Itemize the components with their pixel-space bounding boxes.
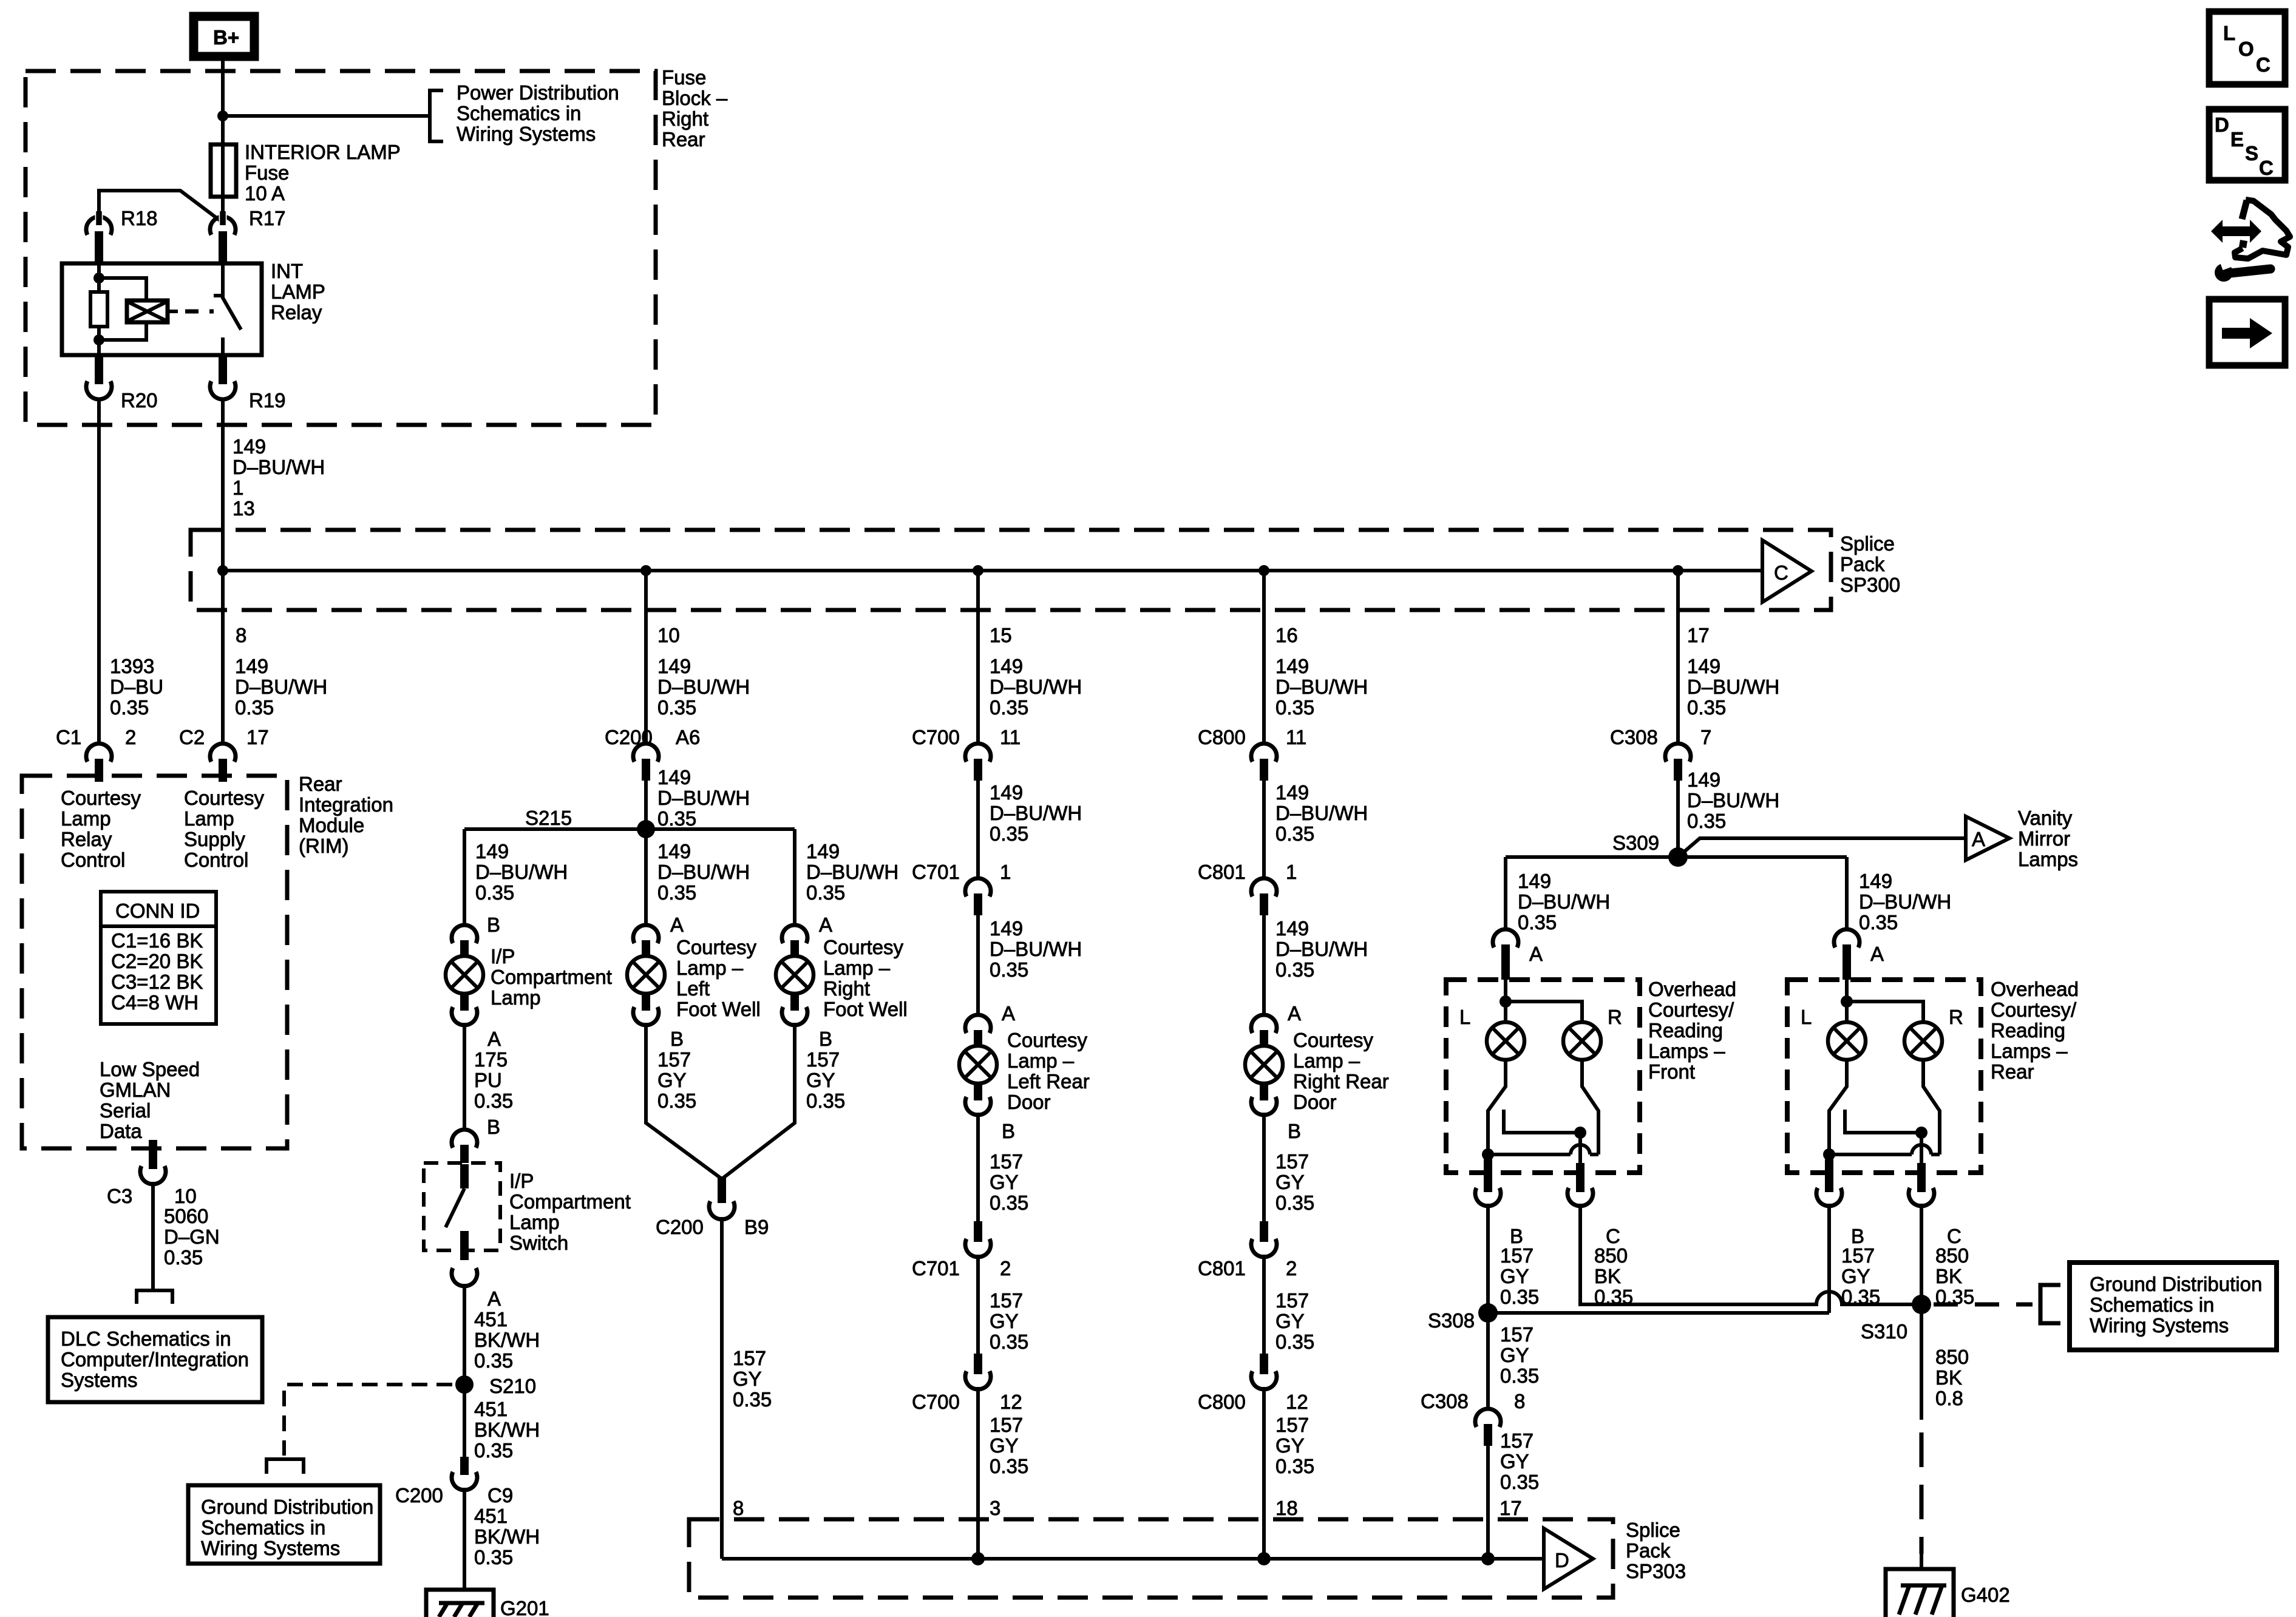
- label connector C700 pin 11: [912, 726, 1021, 748]
- label connector C1 pin 2: [56, 726, 136, 748]
- node bus tap C308: [1673, 565, 1683, 576]
- connector pin R19: [210, 355, 236, 399]
- connector pin A overhead rear: [1834, 929, 1860, 980]
- svg-text:0.35: 0.35: [474, 1439, 513, 1462]
- wire I/P lamp to switch (175 PU): [463, 1023, 466, 1131]
- svg-text:BK/WH: BK/WH: [474, 1419, 540, 1441]
- svg-text:R19: R19: [249, 389, 286, 412]
- svg-text:149: 149: [657, 655, 691, 677]
- svg-text:Supply: Supply: [184, 828, 245, 850]
- wire to relay coil: [99, 278, 146, 300]
- box Ground Distribution Schematics (right): [2070, 1263, 2277, 1350]
- svg-text:C308: C308: [1610, 726, 1658, 748]
- svg-text:E: E: [2230, 128, 2244, 151]
- label circuit 149 D-BU/WH 0.35 (above S215): [657, 766, 750, 830]
- svg-text:Door: Door: [1293, 1091, 1337, 1113]
- wire C801 1 to door lamp: [1262, 915, 1266, 1016]
- svg-text:Front: Front: [1648, 1060, 1695, 1083]
- svg-text:C800: C800: [1198, 726, 1246, 748]
- svg-text:16: 16: [1275, 624, 1298, 646]
- svg-text:D–BU/WH: D–BU/WH: [657, 861, 750, 883]
- connector pin A overhead front: [1493, 929, 1518, 980]
- svg-text:7: 7: [1700, 726, 1711, 748]
- fork to ground distribution box: [267, 1459, 304, 1474]
- wire switch to S210 (451 BK/WH): [463, 1284, 466, 1457]
- svg-text:L: L: [2223, 22, 2235, 44]
- label circuit 149 D-BU/WH 0.35 (C2 leg): [235, 655, 327, 719]
- label circuit 149 D-BU/WH 0.35 (I/P lamp leg): [475, 840, 568, 936]
- svg-text:11: 11: [1286, 726, 1306, 748]
- label circuit 149 D-BU/WH 0.35 (right foot well leg): [806, 840, 898, 936]
- label connector C701 pin 1: [912, 861, 1011, 883]
- lamp overhead front right: [1563, 1022, 1601, 1060]
- svg-text:B: B: [1288, 1120, 1301, 1142]
- svg-text:C200: C200: [395, 1484, 443, 1507]
- svg-text:C: C: [1774, 561, 1788, 584]
- svg-text:Module: Module: [299, 814, 364, 836]
- node lamp feed split: [1500, 995, 1512, 1008]
- label circuit 149 D-BU/WH 0.35 (C700 leg): [990, 655, 1082, 719]
- node bus tap C200: [640, 565, 651, 576]
- svg-text:S210: S210: [489, 1375, 536, 1397]
- svg-text:157: 157: [1841, 1244, 1875, 1267]
- svg-text:S308: S308: [1428, 1309, 1475, 1332]
- connector C200 A6: [633, 744, 659, 781]
- svg-text:D–BU/WH: D–BU/WH: [1687, 789, 1779, 812]
- ground G402: [1886, 1569, 2010, 1617]
- connector pin B below left foot well lamp: [633, 994, 684, 1050]
- node pin B link: [1823, 1148, 1835, 1161]
- label circuit 149 D-BU/WH 0.35 (C800 leg): [1275, 655, 1368, 719]
- svg-text:L: L: [1801, 1006, 1812, 1028]
- svg-text:149: 149: [1687, 768, 1720, 791]
- svg-text:GY: GY: [1275, 1434, 1305, 1457]
- svg-text:149: 149: [990, 781, 1023, 804]
- label INTERIOR LAMP Fuse 10 A: [245, 141, 401, 205]
- label connector C308 pin 7: [1610, 726, 1711, 748]
- connector pin A of left foot well lamp: [633, 925, 659, 957]
- connector pin C overhead rear: [1909, 1163, 1961, 1247]
- svg-text:Lamp: Lamp: [509, 1211, 560, 1233]
- svg-text:DLC Schematics in: DLC Schematics in: [61, 1327, 231, 1350]
- wire C308 7 to S309: [1676, 781, 1680, 857]
- wire C200 A6 to S215: [644, 781, 648, 829]
- svg-text:S215: S215: [525, 807, 572, 829]
- svg-text:Courtesy/: Courtesy/: [1648, 998, 1734, 1021]
- svg-text:Compartment: Compartment: [509, 1190, 631, 1213]
- wire S309 branch to overhead rear pin A: [1845, 857, 1849, 930]
- svg-text:5060: 5060: [164, 1205, 208, 1227]
- connector pin A of Left rear door lamp: [965, 1015, 991, 1047]
- svg-text:Right: Right: [823, 977, 870, 1000]
- svg-text:S310: S310: [1861, 1320, 1907, 1343]
- svg-text:C200: C200: [656, 1216, 704, 1238]
- svg-text:CONN ID: CONN ID: [115, 900, 200, 922]
- svg-text:Relay: Relay: [61, 828, 112, 850]
- svg-text:Courtesy/: Courtesy/: [1991, 998, 2077, 1021]
- svg-text:Reading: Reading: [1991, 1019, 2065, 1042]
- wire link right lamp to pin B wire: [1488, 1153, 1598, 1156]
- svg-text:Lamp: Lamp: [61, 807, 111, 830]
- svg-text:SP303: SP303: [1626, 1560, 1686, 1582]
- wire right lamp down: [1582, 1060, 1598, 1154]
- svg-text:C1=16 BK: C1=16 BK: [111, 929, 203, 952]
- svg-text:Fuse: Fuse: [662, 66, 706, 89]
- connector C700 12: [912, 1354, 1022, 1413]
- label Vanity Mirror Lamps: [2018, 807, 2078, 870]
- svg-text:149: 149: [1275, 781, 1309, 804]
- connector pin B overhead front: [1475, 1159, 1523, 1247]
- wire bus to C308 7: [1676, 571, 1680, 745]
- label circuit 149 D-BU/WH 0.35 (left foot well leg): [657, 840, 750, 936]
- label circuit 157 GY 0.35 (pin B rear): [1841, 1244, 1880, 1308]
- label circuit 850 BK 0.35 (pin C rear): [1935, 1244, 1974, 1308]
- wire S215 down to left foot well lamp: [644, 829, 648, 926]
- wire SP303 bus: [722, 1557, 1545, 1561]
- svg-text:Pack: Pack: [1840, 553, 1885, 575]
- svg-text:12: 12: [1000, 1391, 1022, 1413]
- svg-text:0.35: 0.35: [733, 1388, 772, 1411]
- svg-text:GY: GY: [1275, 1310, 1305, 1332]
- svg-text:Lamp: Lamp: [184, 807, 234, 830]
- svg-text:11: 11: [1000, 726, 1021, 748]
- label circuit 157 GY 0.35 (lamp to C701 2): [990, 1150, 1028, 1214]
- svg-text:GY: GY: [657, 1069, 687, 1091]
- svg-text:GY: GY: [1500, 1344, 1529, 1366]
- label connector C308 pin 8: [1421, 1390, 1525, 1412]
- svg-text:(RIM): (RIM): [299, 835, 348, 857]
- lamp Courtesy Lamp - Left Foot Well: [627, 956, 665, 994]
- connector pin B of I/P compartment lamp: [452, 925, 477, 957]
- icon car with double arrow and wrench: [2211, 200, 2290, 282]
- svg-text:3: 3: [990, 1497, 1000, 1519]
- connector C1: [86, 744, 112, 782]
- overhead lamp module box (rear): [1787, 980, 1981, 1173]
- node SP303 tap C700: [971, 1552, 985, 1565]
- svg-text:INTERIOR LAMP: INTERIOR LAMP: [245, 141, 401, 163]
- svg-text:1: 1: [1286, 861, 1297, 883]
- svg-text:D–GN: D–GN: [164, 1225, 220, 1248]
- reading switch stub: [1845, 1110, 1921, 1133]
- svg-text:D–BU/WH: D–BU/WH: [990, 938, 1082, 960]
- svg-text:D–BU/WH: D–BU/WH: [990, 676, 1082, 698]
- svg-text:850: 850: [1935, 1244, 1969, 1267]
- svg-text:Lamp –: Lamp –: [1007, 1049, 1075, 1072]
- relay coil symbol: [127, 300, 178, 322]
- svg-text:C9: C9: [487, 1484, 513, 1507]
- connector pin R17: [210, 211, 236, 262]
- svg-text:451: 451: [474, 1308, 508, 1331]
- svg-text:0.35: 0.35: [1275, 1455, 1314, 1477]
- svg-text:PU: PU: [474, 1069, 502, 1091]
- svg-text:R: R: [1949, 1006, 1963, 1028]
- svg-text:D–BU/WH: D–BU/WH: [657, 787, 750, 809]
- connector C2: [210, 744, 236, 782]
- svg-text:Courtesy: Courtesy: [61, 787, 141, 809]
- svg-text:D–BU/WH: D–BU/WH: [1687, 676, 1779, 698]
- wire C701 1 to door lamp: [976, 915, 980, 1016]
- svg-text:Relay: Relay: [271, 301, 322, 324]
- svg-text:Rear: Rear: [1991, 1060, 2034, 1083]
- label Overhead Courtesy/Reading Lamps - Front: [1648, 978, 1736, 1083]
- label connector C800 pin 11: [1198, 726, 1306, 748]
- svg-text:Courtesy: Courtesy: [1293, 1029, 1374, 1051]
- wire C801 2 to C800 12: [1262, 1255, 1266, 1354]
- svg-text:2: 2: [1286, 1257, 1297, 1280]
- node bus tap C700: [973, 565, 983, 576]
- svg-text:I/P: I/P: [491, 945, 515, 968]
- svg-text:0.35: 0.35: [806, 1090, 845, 1112]
- svg-text:GY: GY: [990, 1171, 1019, 1193]
- CONN ID table: [101, 892, 216, 1024]
- svg-text:C701: C701: [912, 1257, 960, 1280]
- svg-text:Control: Control: [184, 849, 248, 871]
- svg-text:Schematics in: Schematics in: [457, 102, 581, 124]
- label Overhead Courtesy/Reading Lamps - Rear: [1991, 978, 2079, 1083]
- svg-text:A: A: [1870, 943, 1884, 965]
- lamp overhead rear left: [1828, 1022, 1866, 1060]
- svg-text:GY: GY: [1500, 1265, 1529, 1287]
- svg-text:Lamp: Lamp: [491, 986, 541, 1009]
- svg-text:Power Distribution: Power Distribution: [457, 81, 619, 104]
- svg-text:0.35: 0.35: [474, 1546, 513, 1568]
- svg-text:17: 17: [246, 726, 269, 748]
- svg-text:Block –: Block –: [662, 87, 728, 109]
- svg-text:0.35: 0.35: [657, 881, 696, 904]
- svg-text:C4=8 WH: C4=8 WH: [111, 991, 199, 1014]
- splice pack SP303 dashed enclosure: [689, 1519, 1613, 1598]
- wire C700 12 to SP303: [976, 1387, 980, 1559]
- svg-text:B: B: [819, 1028, 832, 1050]
- svg-text:149: 149: [990, 655, 1023, 677]
- node SP303 tap C308: [1481, 1552, 1495, 1565]
- svg-text:G201: G201: [500, 1597, 549, 1617]
- label circuit 451 BK/WH 0.35 (to G201): [474, 1505, 540, 1568]
- wire S215 branch bus: [464, 827, 795, 831]
- node SP303 tap C800: [1257, 1552, 1271, 1565]
- connector C700 11: [965, 744, 991, 781]
- node switch to pin C: [1915, 1127, 1927, 1139]
- wire S309 branch bus: [1506, 855, 1847, 859]
- svg-text:175: 175: [474, 1048, 508, 1071]
- label circuit 149 D-BU/WH 0.35 (to lamp A): [1275, 917, 1368, 1025]
- svg-text:1393: 1393: [110, 655, 154, 677]
- connector C801 1: [1251, 878, 1277, 915]
- svg-text:149: 149: [235, 655, 268, 677]
- svg-text:12: 12: [1286, 1391, 1308, 1413]
- label circuit 850 BK 0.8 (S310 to G402): [1935, 1346, 1969, 1409]
- svg-text:D–BU/WH: D–BU/WH: [1518, 890, 1610, 913]
- svg-text:0.35: 0.35: [1500, 1471, 1539, 1493]
- wire S310 to G402 (part solid part dashed): [1920, 1304, 1923, 1420]
- wire front pin C to S310 with hop over rear B: [1580, 1204, 1921, 1304]
- svg-text:Schematics in: Schematics in: [2090, 1293, 2214, 1316]
- label Courtesy Lamp Relay Control: [61, 787, 141, 871]
- wire link right lamp to pin B wire: [1829, 1153, 1940, 1156]
- lamp overhead front left: [1487, 1022, 1524, 1060]
- svg-text:D–BU: D–BU: [110, 676, 163, 698]
- lamp Courtesy Lamp - Right Foot Well: [776, 956, 813, 994]
- connector C308 8: [1475, 1409, 1501, 1446]
- connector pin A below switch: [452, 1268, 501, 1310]
- svg-text:149: 149: [990, 917, 1023, 940]
- svg-text:157: 157: [1275, 1289, 1309, 1312]
- label circuit 149 D-BU/WH 0.35 (to C801): [1275, 781, 1368, 845]
- svg-text:GMLAN: GMLAN: [100, 1079, 171, 1101]
- svg-text:D: D: [2215, 114, 2229, 136]
- wire front pin B to S308: [1486, 1204, 1490, 1409]
- svg-text:Ground Distribution: Ground Distribution: [2090, 1273, 2262, 1295]
- svg-text:Low Speed: Low Speed: [100, 1058, 200, 1080]
- svg-text:Door: Door: [1007, 1091, 1051, 1113]
- svg-text:D–BU/WH: D–BU/WH: [990, 802, 1082, 824]
- off-page arrow A vanity: [1966, 816, 2009, 860]
- svg-text:Data: Data: [100, 1120, 142, 1142]
- svg-text:Foot Well: Foot Well: [823, 998, 908, 1020]
- splice pack SP300 dashed enclosure: [191, 530, 1831, 610]
- reading switch stub: [1504, 1110, 1580, 1133]
- svg-text:157: 157: [1275, 1150, 1309, 1173]
- wire SP300 bus: [223, 569, 1764, 572]
- wire split to R lamp: [1847, 1002, 1923, 1022]
- svg-text:2: 2: [125, 726, 136, 748]
- lamp overhead rear right: [1904, 1022, 1942, 1060]
- svg-text:D–BU/WH: D–BU/WH: [233, 456, 325, 478]
- svg-text:SP300: SP300: [1840, 574, 1900, 596]
- wire right lamp down: [1923, 1060, 1940, 1154]
- svg-text:17: 17: [1687, 624, 1710, 646]
- splice S310: [1912, 1295, 1931, 1314]
- label Rear Integration Module (RIM): [299, 773, 393, 857]
- svg-text:Right Rear: Right Rear: [1293, 1070, 1389, 1093]
- wire left lamp to pin B: [1829, 1060, 1847, 1173]
- svg-text:GY: GY: [990, 1310, 1019, 1332]
- svg-text:157: 157: [1500, 1323, 1533, 1346]
- node pin B link: [1482, 1148, 1494, 1161]
- label I/P Compartment Lamp Switch: [509, 1170, 631, 1254]
- svg-text:Wiring Systems: Wiring Systems: [2090, 1314, 2229, 1337]
- label circuit 157 GY 0.35 (to C800 12): [1275, 1289, 1314, 1353]
- connector pin R20: [86, 355, 112, 399]
- B+ battery feed box: [194, 16, 254, 56]
- svg-text:Lamp –: Lamp –: [676, 957, 744, 979]
- svg-text:C3: C3: [107, 1185, 132, 1207]
- svg-text:10: 10: [174, 1185, 197, 1207]
- svg-text:C3=12 BK: C3=12 BK: [111, 971, 203, 993]
- svg-text:8: 8: [236, 624, 246, 646]
- svg-text:0.35: 0.35: [1687, 696, 1726, 719]
- svg-text:0.35: 0.35: [164, 1246, 203, 1269]
- svg-text:BK: BK: [1935, 1265, 1962, 1287]
- svg-text:A: A: [1972, 828, 1985, 850]
- dashed actuator link: [185, 310, 214, 314]
- label circuit 149 D-BU/WH 0.35 (to lamp A): [990, 917, 1082, 1025]
- wire S309 branch to overhead front pin A: [1504, 857, 1507, 930]
- svg-text:0.8: 0.8: [1935, 1387, 1963, 1409]
- svg-text:BK: BK: [1594, 1265, 1621, 1287]
- svg-text:C2: C2: [179, 726, 205, 748]
- wire split to R lamp: [1506, 1002, 1582, 1022]
- label circuit 149 D-BU/WH 0.35 (C200 leg): [657, 655, 750, 719]
- label connector C801 pin 1: [1198, 861, 1297, 883]
- svg-text:C800: C800: [1198, 1391, 1246, 1413]
- svg-text:D: D: [1555, 1549, 1569, 1571]
- svg-text:BK: BK: [1935, 1366, 1962, 1389]
- box DLC Schematics: [48, 1317, 262, 1402]
- svg-text:Fuse: Fuse: [245, 161, 289, 184]
- svg-text:157: 157: [990, 1414, 1023, 1436]
- svg-text:Wiring Systems: Wiring Systems: [457, 123, 596, 145]
- box Ground Distribution Schematics (left): [188, 1485, 380, 1564]
- label Courtesy Lamp Supply Control: [184, 787, 265, 871]
- label circuit 157 GY 0.35 (lamp to C801 2): [1275, 1150, 1314, 1214]
- connector pin A below I/P lamp: [452, 994, 501, 1050]
- svg-text:2: 2: [1000, 1257, 1011, 1280]
- switch blade: [446, 1164, 469, 1260]
- label circuit 149 D-BU/WH 0.35 (to C701): [990, 781, 1082, 845]
- wire C9 to G201: [463, 1488, 466, 1590]
- svg-text:10 A: 10 A: [245, 182, 285, 205]
- label circuit 157 GY 0.35 (to SP303): [990, 1414, 1028, 1477]
- svg-text:GY: GY: [733, 1368, 762, 1390]
- svg-text:Computer/Integration: Computer/Integration: [61, 1348, 249, 1371]
- svg-text:0.35: 0.35: [990, 696, 1028, 719]
- lamp I/P Compartment Lamp: [446, 956, 483, 994]
- svg-text:C308: C308: [1421, 1390, 1469, 1412]
- wire bus to C700 11: [976, 571, 980, 745]
- svg-text:R17: R17: [249, 207, 286, 229]
- svg-text:D–BU/WH: D–BU/WH: [475, 861, 568, 883]
- svg-text:0.35: 0.35: [657, 1090, 696, 1112]
- svg-text:Courtesy: Courtesy: [823, 936, 904, 958]
- node switch to pin C: [1574, 1127, 1586, 1139]
- svg-text:A: A: [1529, 943, 1543, 965]
- svg-text:A: A: [1288, 1002, 1301, 1025]
- wire switch node to pin C crossing hop: [1920, 1133, 1923, 1173]
- svg-text:0.35: 0.35: [990, 822, 1028, 845]
- svg-text:Schematics in: Schematics in: [201, 1516, 325, 1539]
- svg-text:850: 850: [1935, 1346, 1969, 1368]
- svg-text:C700: C700: [912, 726, 960, 748]
- label connector C2 pin 17: [179, 726, 269, 748]
- relay box INT LAMP Relay: [62, 263, 262, 355]
- svg-text:Splice: Splice: [1840, 532, 1895, 555]
- label circuit 850 BK 0.35 (pin C front): [1594, 1244, 1633, 1308]
- svg-text:149: 149: [1859, 870, 1892, 892]
- label circuit 451 BK/WH 0.35 (below S210): [474, 1398, 540, 1462]
- svg-text:Integration: Integration: [299, 793, 393, 816]
- connector pin B below Left rear door lamp: [965, 1083, 1015, 1142]
- svg-text:0.35: 0.35: [657, 807, 696, 830]
- RIM dashed enclosure Rear Integration Module: [22, 776, 287, 1148]
- svg-text:Compartment: Compartment: [491, 966, 612, 988]
- label circuit 149 D-BU/WH 1 13: [233, 435, 325, 520]
- svg-text:Right: Right: [662, 107, 708, 130]
- svg-text:Reading: Reading: [1648, 1019, 1723, 1042]
- svg-text:Overhead: Overhead: [1991, 978, 2079, 1000]
- svg-text:0.35: 0.35: [990, 958, 1028, 981]
- svg-text:157: 157: [1500, 1244, 1533, 1267]
- svg-text:0.35: 0.35: [1275, 958, 1314, 981]
- label connector C200 pin A6: [605, 726, 700, 748]
- svg-text:149: 149: [1275, 655, 1309, 677]
- svg-text:1: 1: [1000, 861, 1011, 883]
- svg-text:LAMP: LAMP: [271, 280, 325, 303]
- label circuit 175 PU 0.35 B: [474, 1048, 513, 1138]
- svg-text:157: 157: [1500, 1429, 1533, 1452]
- svg-text:17: 17: [1500, 1497, 1522, 1519]
- svg-text:S: S: [2245, 142, 2258, 164]
